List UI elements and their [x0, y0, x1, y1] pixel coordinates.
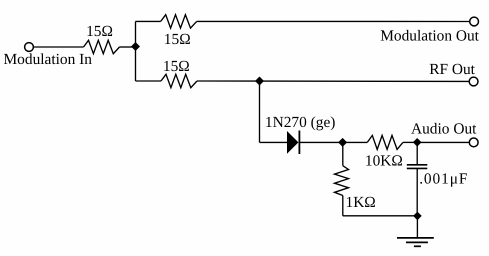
wire: R1 to node A	[120, 46, 136, 48]
wire: vertical bus at node A	[135, 21, 137, 81]
resistor R5 1Kohm (vertical)	[335, 166, 349, 196]
ground symbol	[397, 238, 434, 246]
capacitor C1 .001uF bottom plate	[407, 167, 428, 169]
svg-text:1N270 (ge): 1N270 (ge)	[265, 114, 336, 131]
terminal: Modulation Out	[470, 17, 479, 26]
wire: corner to diode anode	[260, 141, 288, 143]
wire: diode cathode to node C	[299, 141, 342, 143]
terminal: Modulation In	[25, 43, 34, 52]
diode D1 1N270 triangle	[287, 131, 298, 154]
svg-text:Modulation Out: Modulation Out	[380, 28, 479, 45]
node A junction dot	[131, 42, 140, 51]
node C junction dot	[338, 138, 347, 147]
wire: node A to R2	[136, 20, 161, 22]
wire: node B down to diode row	[259, 81, 261, 142]
wire: node E to ground	[416, 216, 418, 237]
wire: bottom rail to node E	[343, 215, 418, 217]
wire: node A to R3	[136, 80, 162, 82]
wire: node D down to capacitor top plate	[416, 142, 418, 164]
svg-text:15Ω: 15Ω	[86, 23, 113, 40]
svg-text:15Ω: 15Ω	[163, 58, 190, 75]
wire: R2 to Modulation Out	[197, 20, 470, 22]
wire: node D to Audio Out terminal	[417, 141, 469, 143]
svg-text:.001μF: .001μF	[419, 171, 468, 188]
resistor R3 15ohm (horizontal, RF)	[161, 74, 197, 87]
svg-text:10KΩ: 10KΩ	[365, 153, 403, 170]
svg-text:1KΩ: 1KΩ	[346, 194, 376, 211]
terminal: Audio Out	[469, 138, 478, 147]
node B junction dot (RF line to detector tap)	[255, 77, 264, 86]
terminal: RF Out	[469, 77, 478, 86]
node E junction dot	[413, 212, 422, 221]
svg-text:15Ω: 15Ω	[164, 31, 191, 48]
svg-text:RF Out: RF Out	[429, 61, 475, 78]
svg-text:Modulation In: Modulation In	[4, 51, 93, 68]
svg-text:Audio Out: Audio Out	[411, 121, 477, 138]
diode D1 cathode bar	[298, 131, 300, 155]
resistor R1 15ohm (horizontal)	[84, 40, 120, 53]
wire: R5 to bottom rail	[342, 196, 344, 216]
wire: capacitor bottom plate to node E	[416, 168, 418, 215]
wire: node C down to R5	[342, 142, 344, 165]
wire: node C to R4	[343, 141, 368, 143]
resistor R4 10Kohm (horizontal)	[367, 135, 403, 149]
wire: Modulation In terminal to R1	[34, 46, 84, 48]
capacitor C1 .001uF top plate	[407, 164, 428, 166]
node D junction dot	[413, 138, 422, 147]
wire: R3 to RF Out	[197, 80, 469, 82]
wire: R4 to node D	[403, 141, 417, 143]
resistor R2 15ohm (horizontal, top)	[161, 15, 197, 28]
